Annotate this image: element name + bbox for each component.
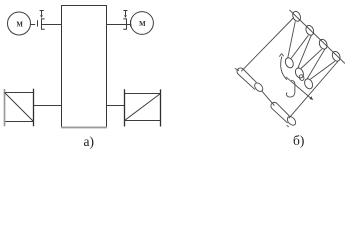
pulley L2 (294, 67, 305, 80)
rope L1 to E2 (291, 35, 308, 58)
drum D2 end cap (286, 115, 298, 127)
rotation arrow head (279, 54, 283, 57)
pulley L3 (303, 78, 314, 91)
hook (286, 81, 295, 98)
rope anchor line (286, 77, 313, 100)
shaft gearbox to motor M2 (107, 24, 127, 26)
drum1 shaft stub (235, 68, 239, 70)
drum box right rect (125, 94, 161, 121)
rope E1 to L1 (288, 21, 296, 58)
drum box left right bar (33, 89, 35, 127)
brake arrow left (40, 11, 44, 16)
anchor arrowhead (309, 96, 313, 100)
pulley E4 (331, 50, 342, 62)
pulley E3 (318, 38, 329, 50)
rope E3 to L3 (307, 49, 325, 79)
shaft gearbox to right box (107, 105, 125, 107)
motor M2 circle (131, 12, 154, 35)
drum box left grey end bar (4, 89, 6, 126)
drum box left rect (5, 93, 34, 122)
svg-text:М: М (139, 21, 146, 28)
motor M1 shaft stub (31, 24, 36, 26)
coupling half dash left (37, 20, 39, 26)
motor M2 shaft stub (127, 24, 132, 26)
drum D2 rope end tick (287, 125, 289, 127)
brake arrow right (123, 11, 127, 16)
brake coupling bracket right (123, 19, 126, 29)
drum D1 end cap (253, 81, 264, 93)
upper pulley axis line (290, 10, 345, 64)
drum box right diagonal (125, 94, 161, 121)
drum box left diagonal (5, 93, 34, 122)
shaft motor1 to gearbox (42, 24, 62, 26)
rope L3 to E4 (310, 61, 335, 79)
gearbox bottom grey edge (61, 126, 107, 128)
rotation arrow curve (281, 57, 287, 80)
drum box right left bar (124, 89, 126, 126)
pulley E1 (291, 10, 302, 22)
label a) (84, 134, 95, 150)
rope drum1 to pulley E1 (241, 18, 293, 72)
rope L2 to E3 (301, 49, 322, 68)
rope E2 to L2 (298, 35, 311, 68)
rope pulley E4 to drum2 (289, 62, 338, 119)
hook swivel (298, 74, 304, 81)
gearbox housing U1 (62, 6, 107, 128)
brake coupling bracket left (42, 19, 45, 29)
pulley E2 (304, 24, 315, 36)
coupling half dash right (130, 20, 132, 26)
drum D1 body (237, 68, 256, 90)
svg-text:М: М (16, 22, 23, 29)
drum box right right bar (160, 89, 162, 126)
shaft left box to gearbox (34, 105, 62, 107)
pulley L1 (284, 57, 295, 70)
drum D2 body (271, 102, 290, 123)
motor M1 circle (8, 12, 31, 35)
label b) (293, 133, 304, 149)
shaft drum1 to drum2 (261, 91, 274, 106)
